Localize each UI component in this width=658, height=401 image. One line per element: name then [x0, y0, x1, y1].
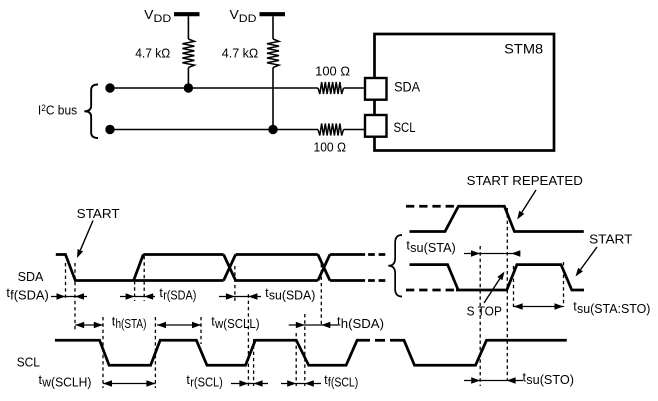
dashed line SCL fall1 [102, 317, 104, 388]
wire SCL resume high-fall-low-rise-high [390, 340, 567, 365]
power VDD1 bar [174, 12, 200, 16]
wire VDD2 stem [272, 16, 274, 39]
wire SCL waveform main [55, 340, 370, 365]
wire RS1 to SDA pin [344, 87, 366, 89]
resistor RS1 100R zigzag [318, 82, 344, 94]
dashed line X1 [234, 266, 236, 301]
wire bot high-fall [410, 265, 459, 290]
wire bot dashed low level [406, 289, 456, 292]
svg-text:r(SCL): r(SCL) [190, 376, 223, 390]
svg-text:STM8: STM8 [504, 42, 543, 57]
svg-text:SDA: SDA [18, 269, 44, 284]
arrow tr(SCL) [231, 383, 268, 385]
arrow START right to fall [581, 247, 597, 270]
resistor R2 4.7k zigzag [267, 39, 279, 68]
wire SDA crossover X2 fall [318, 255, 330, 281]
dashed line SCL fall3 end [304, 314, 306, 386]
wire SDA rails after X1 low [236, 279, 318, 282]
wire SDA rails after X1 high [236, 253, 318, 256]
pin SCL box [365, 115, 387, 137]
junction dot R2-SCL [268, 125, 277, 134]
arrow tr(SDA) [120, 296, 155, 298]
wire SDA high rail break dashes [368, 253, 385, 256]
arrow tf(SDA) [51, 296, 87, 298]
arrow START to falling edge [80, 221, 93, 251]
wire SDA rails after X2 low [330, 279, 365, 282]
dashed line X2 [320, 264, 322, 325]
brace right alternatives [388, 235, 402, 297]
svg-text:r(SDA): r(SDA) [163, 289, 196, 303]
arrow th(SDA) [289, 324, 339, 326]
svg-text:f(SCL): f(SCL) [328, 376, 358, 390]
dashed line SCL rise2 end [253, 339, 255, 386]
svg-text:su(STO): su(STO) [526, 373, 574, 387]
wire RS2 to SCL pin [344, 129, 366, 131]
wire SDA crossover X1 rise [224, 255, 236, 281]
svg-text:4.7 kΩ: 4.7 kΩ [135, 46, 170, 61]
dashed line SCL rise2 start [247, 294, 249, 386]
wire bot low-rise-high-fall-low [456, 265, 584, 290]
svg-text:SDA: SDA [394, 80, 420, 95]
arrow tf(SCL) [281, 383, 321, 385]
brace I2C bus [84, 85, 98, 139]
arrow tsu(SDA) [219, 296, 261, 298]
wire SDA bus [110, 87, 318, 89]
svg-text:w(SCLL): w(SCLL) [214, 317, 260, 331]
dashed line SCL rise right [479, 246, 481, 386]
dashed line SDA rise start [134, 281, 136, 301]
wire SDA rising edge tr [134, 255, 144, 281]
svg-text:su(STA:STO): su(STA:STO) [577, 302, 650, 316]
wire SDA crossover X1 fall [224, 255, 236, 281]
svg-text:su(SDA): su(SDA) [269, 289, 315, 303]
wire SCL high break dash [375, 339, 385, 342]
wire VDD1 stem [187, 16, 189, 39]
svg-text:START: START [589, 232, 632, 247]
wire SDA high rail [143, 253, 223, 256]
node SDA bus left dot [105, 83, 114, 92]
power VDD2 bar [260, 12, 286, 16]
wire SDA rails after X2 high [330, 253, 365, 256]
pin SDA box [365, 78, 387, 100]
dashed line tf(SDA) left [65, 263, 67, 300]
svg-text:SCL: SCL [394, 120, 416, 135]
dashed line STOP rise end [513, 266, 515, 307]
dashed line SCL fall3 start [295, 333, 297, 386]
svg-text:100 Ω: 100 Ω [315, 64, 350, 79]
wire SDA waveform high-fall-low [56, 255, 134, 281]
arrow tsu(STA) [464, 253, 521, 255]
arrow STOP to rising edge [484, 279, 500, 303]
svg-text:h(SDA): h(SDA) [341, 317, 384, 331]
svg-text:START: START [77, 206, 120, 221]
dashed line SDA rise end [143, 256, 145, 301]
arrow th(STA) [75, 324, 103, 326]
junction dot R1-SDA [184, 83, 193, 92]
svg-text:f(SDA): f(SDA) [10, 289, 49, 303]
dashed line START fall [563, 262, 565, 307]
wire top dashed high level [406, 205, 457, 208]
wire SDA low rail break dashes [368, 279, 385, 282]
svg-text:SCL: SCL [17, 355, 40, 370]
arrow tsu(STA:STO) [514, 306, 564, 308]
node SCL bus left dot [105, 125, 114, 134]
dashed line SDA fall end [74, 263, 76, 331]
wire top low-rise-high-fall-low [410, 206, 584, 231]
svg-text:S TOP: S TOP [467, 304, 502, 319]
svg-text:w(SCLH): w(SCLH) [41, 376, 91, 390]
dashed line SCL rise1 [154, 317, 156, 388]
svg-text:START REPEATED: START REPEATED [467, 173, 583, 188]
svg-text:100 Ω: 100 Ω [314, 140, 347, 155]
wire SDA crossover X2 rise [318, 255, 330, 281]
svg-text:4.7 kΩ: 4.7 kΩ [222, 46, 259, 61]
arrow tw(SCLL) [157, 324, 201, 326]
arrow tw(SCLH) [103, 383, 155, 385]
svg-text:su(STA): su(STA) [410, 241, 456, 255]
arrow START REPEATED to fall [522, 190, 536, 212]
wire R2 to SCL bus [272, 68, 274, 130]
dashed line SCL fall2 [200, 317, 202, 344]
svg-text:h(STA): h(STA) [116, 317, 147, 331]
resistor R1 4.7k zigzag [182, 39, 194, 68]
arrow tsu(STO) [464, 380, 523, 382]
wire R1 to SDA bus [187, 68, 189, 89]
wire SCL bus [110, 129, 318, 131]
resistor RS2 100R zigzag [318, 124, 344, 136]
wire SDA low rail under data [134, 279, 224, 282]
dashed line repeated start fall [506, 208, 508, 381]
IC U1 STM8 box [375, 34, 555, 151]
